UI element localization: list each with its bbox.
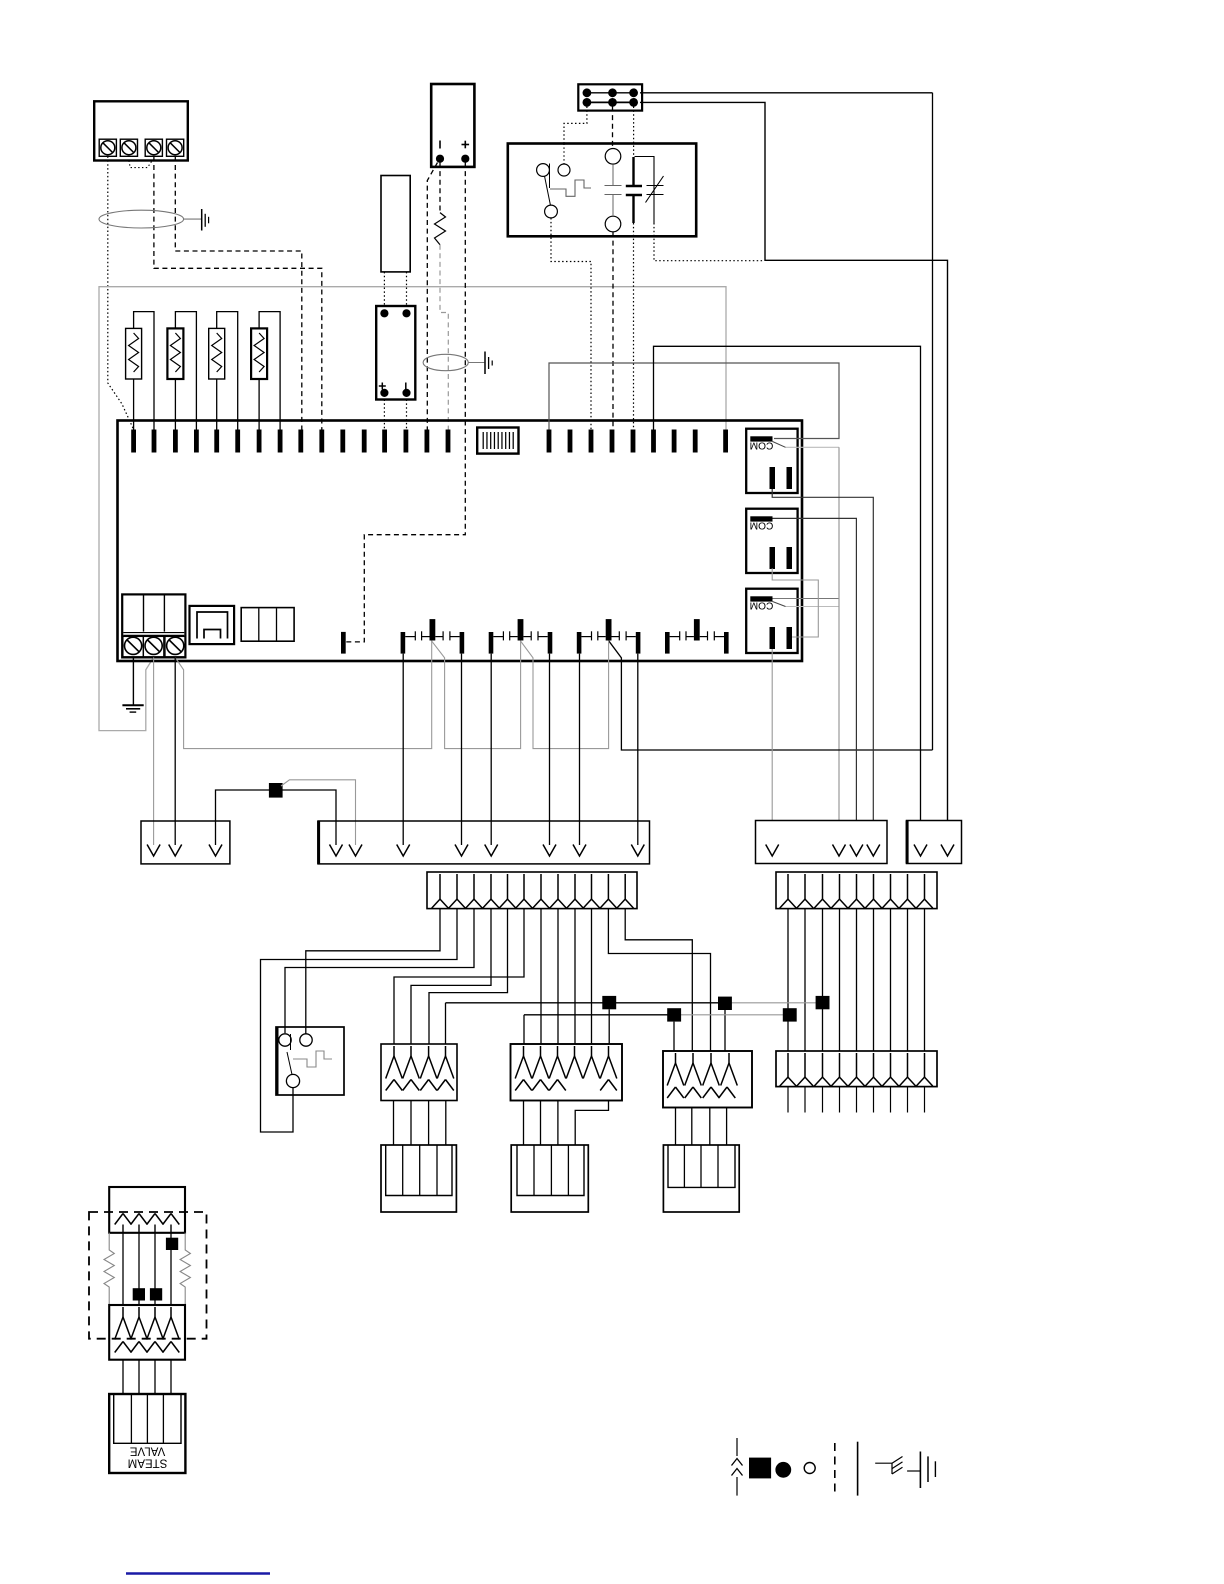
wire J1-6 (dotted) to relay: [633, 107, 635, 157]
wire pin x461 down to cable box2: [461, 654, 463, 845]
switch box S1 (humidistat): [276, 1027, 344, 1095]
bus line B (y1015): [524, 1014, 674, 1016]
legend: junction square: [749, 1458, 771, 1479]
capacitor C3 (variable, thin): [647, 185, 664, 187]
wire TB1-4 (dashed) to board pin 9: [175, 156, 301, 429]
pin J1-3 (top row): [630, 89, 638, 97]
wire H3 stub x924: [924, 1087, 926, 1113]
TB2 cell dividers: [143, 596, 145, 632]
resistor R5 (inline, below battery): [435, 213, 446, 245]
wire R5 (gray dashed) to board pin 16: [440, 245, 448, 430]
bus line A (y1003): [446, 1002, 726, 1004]
arrow 2-4: [455, 845, 468, 857]
wire H1-12 to G3 splice2: [625, 909, 692, 1051]
wire R3 top loop to board pin: [217, 312, 238, 430]
wire R3 bottom to board pin: [216, 379, 218, 430]
legend: filled dot: [776, 1462, 791, 1477]
wire J1 row2 to right riser: [640, 102, 948, 820]
legend: chassis ground: [875, 1462, 892, 1464]
wire junction gray branch to box2: [281, 780, 356, 845]
label BT1 minus: [439, 141, 441, 149]
pin BT1 positive: [462, 155, 469, 162]
wire COM1 pin to cable box: [772, 489, 873, 821]
arrow 2-7: [573, 845, 586, 857]
junction square S4 (bus B / G3): [667, 1008, 681, 1021]
resistor RV1 (left, gray): [104, 1233, 114, 1305]
bus B riser to G2 splice1: [523, 1015, 525, 1044]
board top terminal pins (25): [131, 430, 728, 453]
wire module to charger right (dotted): [406, 272, 408, 306]
wire H1-2 to switch circle-c loop: [261, 909, 458, 1132]
wire V2 to valve connector x139: [138, 1360, 140, 1394]
wire pin x549 down to cable box2: [549, 654, 551, 845]
arrow 2-2: [349, 845, 362, 857]
battery pack BT1 (top): [431, 84, 474, 167]
coil circle K1-top: [605, 149, 621, 165]
pin charger bottom-left: [381, 389, 388, 396]
junction square S5 (bus B / H2 wire): [783, 1008, 797, 1021]
svg-text:STEAMVALVE: STEAMVALVE: [128, 1445, 168, 1469]
wire pin x579 down to cable box2: [579, 654, 581, 845]
wire H3 stub x788: [787, 1087, 789, 1113]
wire G1 to connector CN1: [410, 1101, 412, 1146]
screw terminal TB2-3: [165, 636, 185, 656]
wire V1 to V2 x155: [154, 1233, 156, 1305]
wire G1 to connector CN1: [428, 1101, 430, 1146]
ground (shield2, vertical-bar earth symbol): [484, 352, 486, 375]
switch lever K1: [549, 164, 551, 189]
wire H3 stub x822: [822, 1087, 824, 1113]
arrow 3-2: [941, 845, 954, 857]
wire H3 stub x890: [890, 1087, 892, 1113]
cable box 3 (2 arrows): [907, 821, 962, 864]
wire V1 to V2 x139: [138, 1233, 140, 1305]
wire gray loop: BL terminal screw2 via left/top of board to pin 726: [99, 287, 726, 731]
wire V2 to valve connector x155: [154, 1360, 156, 1394]
slash through C3: [646, 176, 664, 203]
resistor RV2 (right, gray): [180, 1233, 190, 1305]
wire C1 stems: [612, 164, 614, 185]
arrow R-4: [867, 845, 880, 857]
wire G3 to connector CN3: [675, 1108, 677, 1146]
wire COM2 bar to cable box: [773, 518, 857, 820]
wire H1-8 to G2 splice3: [557, 909, 559, 1044]
wire TB2-3 down to cable box1: [174, 657, 176, 845]
arrow 2-8: [631, 845, 644, 857]
wire COM2 pin to COM3 pin: [772, 568, 818, 637]
wire gray pinA center loop (to TB2 screw3 diag): [175, 641, 432, 749]
wire H1-5 to G1 splice3: [429, 909, 508, 1044]
terminal block TB1 (4-screw, top-left): [94, 101, 188, 160]
capacitor C2 (thick plates): [626, 185, 642, 188]
screw terminal TB1-3: [145, 139, 162, 156]
wire harness H1 (12-way splice): [427, 872, 637, 909]
wire pin x491 down to cable box2: [490, 654, 492, 845]
board jumper pin group A: [401, 619, 465, 654]
wire BT1- (dashed) to resistor R5: [439, 163, 441, 213]
contact circle K1-a: [537, 164, 550, 177]
wire TB1-3 (dashed) to board pin 10: [154, 156, 322, 429]
legend: open dot: [804, 1463, 815, 1474]
wire G3 to connector CN3: [726, 1108, 728, 1146]
wire R4 top loop to board pin: [259, 312, 280, 430]
connector J1 (2x3 pin header): [578, 84, 642, 110]
wire TB2-1 to earth ground: [132, 657, 134, 704]
wire C2 top stem (thick): [632, 157, 634, 186]
pin charger bottom-right: [403, 389, 410, 396]
resistor R4 (sensor, boxed): [251, 328, 267, 379]
splice group G1: [381, 1044, 457, 1101]
wire COM3 pointer tap: [786, 606, 840, 608]
wire H2 x805 down to harness H3: [804, 909, 806, 1051]
wire K1 coil (dashed) to board pin: [612, 232, 614, 430]
arrow R-2: [833, 845, 846, 857]
wire H2 x788 down to harness H3: [787, 909, 789, 1051]
junction square JV3: [150, 1288, 162, 1300]
wire J1 row1 to right riser: [640, 92, 933, 94]
wire gray riser x839 down to cable box: [838, 447, 840, 820]
wire shield to ground: [184, 218, 201, 220]
wire H1-1 to switch circle-b: [306, 909, 440, 1034]
connector CN1 (4-pin): [381, 1145, 456, 1212]
pin BT1 negative: [436, 155, 443, 162]
DIP switch block: [477, 428, 518, 454]
cable box 2 (8 arrows): [318, 821, 650, 864]
wire V1 to V2 x123: [122, 1233, 124, 1305]
splice group G2: [511, 1044, 623, 1101]
legend: dashed wire: [834, 1443, 836, 1494]
legend: earth ground (rotated): [907, 1470, 920, 1472]
COM connector 1: [746, 429, 797, 493]
wire S2 to G3 splice4: [724, 1010, 726, 1051]
arrow R-1: [766, 845, 779, 857]
relay-timer module K1: [508, 144, 696, 237]
junction square S2 (bus A / G3): [718, 997, 732, 1010]
contact circle K1-c: [545, 205, 558, 218]
wire harness H2 (9-way splice): [776, 872, 937, 909]
RJ45 jack: [190, 606, 235, 644]
splice group G3: [663, 1051, 752, 1108]
wire H1-7 to G2 splice2: [540, 909, 542, 1044]
wire C2 (dotted) to board pin: [633, 223, 635, 430]
wire H2 x856 down to harness H3: [856, 909, 858, 1051]
wire H2 x907 down to harness H3: [907, 909, 909, 1051]
wire H3 stub x873: [873, 1087, 875, 1113]
junction square JV2: [133, 1288, 145, 1300]
steam splice box V2: [109, 1305, 185, 1360]
pin J1-4 (bottom row): [583, 99, 591, 107]
wire H1-4 to G1 splice2: [411, 909, 491, 1044]
wire jumper TB1-2 to TB1-3 (dotted cup): [129, 161, 152, 168]
J1 row2 bus: [587, 101, 637, 103]
steam valve connector: [109, 1394, 185, 1473]
svg-text:COM: COM: [750, 600, 774, 611]
ground (shield, vertical-bar earth symbol): [201, 209, 203, 231]
wire bus with junction to boxes 1+2: [216, 790, 337, 845]
wire pin653 to cable box3 (via y346): [654, 346, 921, 820]
earth ground symbol (below TB2): [122, 704, 143, 706]
wire H1-3 to switch circle-a: [285, 909, 474, 1033]
board terminal block TB2 (3-screw): [122, 594, 185, 657]
wire gray pinA-pinB: [431, 641, 520, 749]
legend: wire-break chevrons: [736, 1438, 738, 1456]
wire H2 x873 down to harness H3: [873, 909, 875, 1051]
junction square S1 (bus A / G2): [602, 996, 616, 1009]
wire H1-9 to G2 splice4: [574, 909, 576, 1044]
wire R2 bottom to board pin: [174, 379, 176, 430]
wire H2 x822 down to harness H3: [822, 909, 824, 1051]
wire H2 x839 down to harness H3: [839, 909, 841, 1051]
COM connector 2: [746, 509, 797, 573]
arrow R-3: [850, 845, 863, 857]
wire module to charger left (dotted): [383, 272, 385, 306]
connector CN3 (4-pin): [663, 1145, 739, 1212]
wire harness H3 (9-way, right): [776, 1051, 937, 1087]
connector CN2 (4-pin): [511, 1145, 588, 1212]
wire TB2-2 down to cable box1 (gray): [153, 657, 155, 845]
wire G1 to connector CN1: [393, 1101, 395, 1146]
arrow 3-1: [914, 845, 927, 857]
pin J1-6 (bottom row): [630, 99, 638, 107]
cable shield ellipse (top-left): [99, 210, 184, 228]
relay block (3-cell box): [241, 608, 294, 642]
wire V1 to V2 x171: [170, 1233, 172, 1305]
blue underline (link rule): [126, 1572, 270, 1575]
arrow 2-3: [397, 845, 410, 857]
pointer line COM1: [773, 442, 786, 448]
wire H2 x890 down to harness H3: [890, 909, 892, 1051]
arrow 1-3: [209, 845, 222, 857]
junction (black square, y790): [269, 783, 283, 798]
arrow 1-2: [169, 845, 182, 857]
wire K1-b dotted inside: [563, 144, 565, 164]
wire V2 to valve connector x123: [122, 1360, 124, 1394]
junction square S3 (bus A / H2 wire): [816, 996, 830, 1009]
svg-text:COM: COM: [750, 440, 774, 451]
screw terminal TB1-2: [120, 139, 137, 156]
screw terminal TB1-4: [167, 139, 184, 156]
steam splice box V1 (top): [109, 1187, 185, 1233]
wire R2 top loop to board pin: [175, 312, 196, 430]
wire V2 to valve connector x171: [170, 1360, 172, 1394]
screw terminal TB1-1: [99, 139, 116, 156]
wire J1 row1 riser down to bottom bus: [932, 93, 934, 750]
wire H1-11 to G3 splice3: [608, 909, 710, 1051]
wire shield2 to ground: [468, 362, 484, 364]
capacitor C1 (thin plates): [605, 185, 622, 187]
wire J1-4 (dotted) to relay: [564, 107, 587, 144]
wire COM3 bar tap: [773, 598, 840, 600]
wire H3 stub x856: [856, 1087, 858, 1113]
screw terminal TB2-1: [123, 636, 143, 656]
wire H1-10 to G2 splice5: [591, 909, 593, 1044]
cable box 1 (to remote, 3 arrows): [141, 821, 230, 864]
contact circle K1-b: [558, 164, 570, 176]
wire G2 to connector CN2: [523, 1101, 525, 1146]
wire BT1+ (dashed) through board to bottom pin: [346, 163, 465, 642]
wire S1 to G2 splice6: [608, 1009, 610, 1044]
arrow 2-1: [330, 845, 343, 857]
wire bottom bus y750 to pin group C: [609, 641, 933, 750]
wire G1 to connector CN1: [445, 1101, 447, 1146]
resistor R3 (sensor, boxed): [209, 328, 225, 379]
wire pin x637 down to cable box2: [637, 654, 639, 845]
charger module with +/- pins: [376, 306, 415, 400]
arrow 2-5: [485, 845, 498, 857]
pin J1-1 (top row): [583, 89, 591, 97]
J1 row1 bus: [587, 92, 637, 94]
wire H3 stub x805: [804, 1087, 806, 1113]
bus A riser to G1 splice4: [445, 1003, 447, 1044]
legend: solid wire: [857, 1442, 859, 1496]
coil circle K1-bottom: [605, 216, 621, 232]
screw terminal TB2-2: [143, 636, 163, 656]
pin charger top-left: [381, 310, 388, 317]
wire G2 splice6 jog to CN2: [575, 1101, 608, 1146]
wire C2 bottom stem (thick): [632, 195, 634, 223]
arrow 1-1: [147, 845, 160, 857]
board bottom pin (single, x343): [341, 632, 346, 654]
COM connector 3: [746, 589, 797, 653]
wire gray pinB-pinC: [520, 641, 608, 749]
wire pin x403 down to cable box2: [402, 654, 404, 845]
label charger plus: [379, 385, 386, 387]
wire H2 x924 down to harness H3: [924, 909, 926, 1051]
cable box R (4 arrows): [756, 821, 888, 864]
DIP switch stripes: [483, 432, 513, 449]
TB2 band lines: [123, 632, 184, 634]
wire C2 bypass loop: [635, 157, 655, 224]
wire H3 stub x839: [839, 1087, 841, 1113]
controller board outline: [118, 421, 803, 662]
module (tall empty rectangle): [381, 176, 410, 272]
wire R4 bottom to board pin: [258, 379, 260, 430]
step waveform K1 (gray): [550, 180, 591, 196]
wire pin549 to COM1 bar (via right): [549, 363, 839, 439]
wire BT1- (dashed) to board pin 15: [427, 163, 437, 430]
wire G3 to connector CN3: [691, 1108, 693, 1146]
label charger minus: [405, 383, 407, 390]
wire R1 bottom to board pin: [133, 379, 135, 430]
wire J1-5 (dashed) to relay: [612, 107, 614, 148]
resistor R2 (sensor, boxed): [167, 328, 183, 379]
wire G3 to connector CN3: [709, 1108, 711, 1146]
arrow 2-6: [543, 845, 556, 857]
label BT1 plus: [462, 144, 470, 146]
pin charger top-right: [403, 310, 410, 317]
pin J1-5 (bottom row): [609, 99, 617, 107]
pin J1-2 (top row): [609, 89, 617, 97]
wire G2 to connector CN2: [557, 1101, 559, 1146]
wire charger to board pin 13 (dotted): [383, 400, 385, 430]
svg-text:COM: COM: [750, 520, 774, 531]
cable shield ellipse (battery leads): [423, 354, 468, 370]
board jumper pin group C: [577, 619, 641, 654]
wire H3 stub x907: [907, 1087, 909, 1113]
board jumper pin group D: [665, 619, 729, 654]
wire R1 top loop to board pin: [134, 312, 154, 430]
dashed enclosure (valve interface): [89, 1212, 207, 1339]
wire G2 to connector CN2: [540, 1101, 542, 1146]
junction square JV1: [166, 1238, 178, 1250]
wire C2 bypass (dotted) to riser: [654, 223, 764, 261]
wire charger to board pin 14 (dotted): [406, 400, 408, 430]
board jumper pin group B: [489, 619, 553, 654]
wire COM1 pointer to gray riser: [786, 446, 840, 448]
wire COM3 pin down to cable box: [771, 649, 773, 821]
wire S4 to G3 splice1: [673, 1022, 675, 1051]
resistor R1 (sensor, boxed): [126, 328, 142, 379]
pointer line COM3: [773, 602, 786, 607]
wire TB1-1 shield drain (dotted) to board pin 1: [108, 156, 134, 429]
wire H1-6 to G1 splice1: [394, 909, 524, 1044]
wire K1-c (dotted) to board pin: [551, 218, 591, 430]
